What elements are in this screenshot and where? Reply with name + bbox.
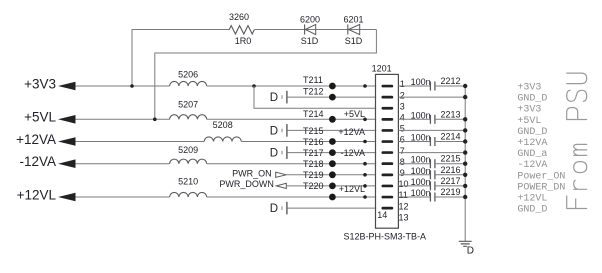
svg-text:-12VA: -12VA xyxy=(517,160,547,171)
ground symbol D xyxy=(459,241,472,246)
bus junction pin 10 xyxy=(463,184,467,188)
net label +5VL xyxy=(24,110,56,125)
svg-text:T215: T215 xyxy=(303,126,324,136)
label T214 xyxy=(303,109,324,119)
svg-text:+12VL: +12VL xyxy=(17,187,57,202)
pin 2 name GND_D xyxy=(517,94,547,105)
net label +12VA xyxy=(16,132,56,147)
wire ground-D to pin 2 xyxy=(288,96,377,98)
connector 1201 body xyxy=(376,74,399,228)
pin number 5 xyxy=(400,124,405,134)
svg-text:100n: 100n xyxy=(411,188,431,198)
capacitor 2213 100n xyxy=(430,115,435,124)
arrow +12VL xyxy=(58,193,76,202)
wire ground-D to pin 7 xyxy=(288,152,377,154)
ground bus xyxy=(464,86,466,241)
connector part number xyxy=(344,232,427,242)
test point T217 xyxy=(329,160,336,167)
wire pin 6 to cap 2214 xyxy=(398,141,430,143)
svg-text:5208: 5208 xyxy=(213,120,233,130)
svg-text:+5VL: +5VL xyxy=(24,110,56,125)
svg-text:100n: 100n xyxy=(411,77,431,87)
label 100n (2212) xyxy=(411,77,431,87)
capacitor 2215 100n xyxy=(430,159,435,168)
bus junction pin 1 xyxy=(463,84,467,88)
ground-D stub label (pin 2) xyxy=(270,92,278,104)
wire cap 2216 to bus xyxy=(435,174,465,176)
inductor 5206 xyxy=(170,81,207,86)
ground-D stub label (pin 5) xyxy=(270,126,278,138)
wire pin 8 to cap 2215 xyxy=(398,163,430,165)
pin number 10 xyxy=(399,179,409,189)
svg-text:5210: 5210 xyxy=(178,176,198,186)
inductor 5209 xyxy=(170,159,207,164)
svg-text:3: 3 xyxy=(400,101,405,111)
connector pin bar 10 xyxy=(382,185,394,188)
test point T214 xyxy=(329,116,336,123)
svg-text:2217: 2217 xyxy=(441,176,461,186)
svg-text:PWR_ON: PWR_ON xyxy=(232,169,272,179)
connector pin bar 8 xyxy=(382,162,394,165)
svg-text:2212: 2212 xyxy=(441,76,461,86)
svg-text:3260: 3260 xyxy=(229,12,249,22)
label 6201 xyxy=(343,15,363,25)
pin 10 name POWER_DN xyxy=(517,182,565,193)
svg-text:5209: 5209 xyxy=(178,145,198,155)
pin 1 name +3V3 xyxy=(517,83,541,94)
label 2216 xyxy=(441,165,461,175)
label T215 xyxy=(303,126,324,136)
capacitor 2217 100n xyxy=(430,181,435,190)
ground-D stub symbol (pin 2) xyxy=(282,91,287,104)
svg-text:2213: 2213 xyxy=(441,109,461,119)
svg-text:11: 11 xyxy=(399,190,408,200)
svg-text:2216: 2216 xyxy=(441,165,461,175)
wire cap 2215 to bus xyxy=(435,163,465,165)
wire +5VL to connector xyxy=(207,118,377,120)
svg-text:D: D xyxy=(270,148,278,160)
svg-text:5: 5 xyxy=(400,124,405,134)
wire pin 9 to cap 2216 xyxy=(398,174,430,176)
svg-text:+12VA: +12VA xyxy=(338,127,365,137)
ground-D stub label (pin 12) xyxy=(270,203,278,215)
wire ground-D to pin 12 xyxy=(288,207,377,209)
test point T216 xyxy=(329,149,336,156)
svg-text:GND_D: GND_D xyxy=(517,205,547,216)
net dot pin 1 xyxy=(363,84,367,88)
connector pin bar 9 xyxy=(382,174,394,177)
svg-text:2: 2 xyxy=(400,90,405,100)
wire diode 6201 down to +5VL feed xyxy=(155,30,377,120)
svg-text:100n: 100n xyxy=(411,155,431,165)
label 100n (2213) xyxy=(411,110,431,120)
diode 6200 S1D xyxy=(305,24,316,34)
arrow +3V3 xyxy=(58,82,76,91)
pin number 9 xyxy=(400,168,405,178)
svg-text:+12VA: +12VA xyxy=(16,132,56,147)
arrow +5VL xyxy=(58,115,76,124)
svg-text:T219: T219 xyxy=(303,170,324,180)
label T217 xyxy=(303,148,324,158)
svg-text:12: 12 xyxy=(399,201,409,211)
wire +12VL rail xyxy=(76,196,170,198)
junction +5VL/feed xyxy=(153,118,157,122)
pin number 4 xyxy=(400,113,405,123)
svg-text:+3V3: +3V3 xyxy=(517,105,541,116)
svg-text:-12VA: -12VA xyxy=(19,154,56,169)
net label +12VA at connector xyxy=(338,127,365,137)
svg-text:+3V3: +3V3 xyxy=(517,83,541,94)
svg-text:100n: 100n xyxy=(411,110,431,120)
svg-text:S1D: S1D xyxy=(345,36,363,46)
wire -12VA rail xyxy=(76,163,170,165)
wire pin 10 to cap 2217 xyxy=(398,185,430,187)
svg-text:1: 1 xyxy=(400,79,405,89)
svg-text:2214: 2214 xyxy=(441,132,461,142)
pin 8 name -12VA xyxy=(517,160,547,171)
wire pin 2 to ground bus xyxy=(398,96,465,98)
pin 5 name GND_D xyxy=(517,127,547,138)
svg-text:T220: T220 xyxy=(303,181,324,191)
capacitor 2216 100n xyxy=(430,170,435,179)
pin 12 name GND_D xyxy=(517,205,547,216)
label 3260 xyxy=(229,12,249,22)
svg-text:2219: 2219 xyxy=(441,187,461,197)
arrow PWR_ON xyxy=(276,172,287,177)
inductor 5210 xyxy=(170,192,207,197)
label T216 xyxy=(303,137,324,147)
bus junction pin 7 xyxy=(463,150,467,154)
label T211 xyxy=(303,75,323,85)
svg-text:100n: 100n xyxy=(411,166,431,176)
wire pin 1 to cap 2212 xyxy=(398,85,430,87)
label T218 xyxy=(303,159,324,169)
connector 1201 label xyxy=(372,64,392,74)
label 5208 xyxy=(213,120,233,130)
ground-D stub symbol (pin 5) xyxy=(282,124,287,137)
svg-text:2215: 2215 xyxy=(441,154,461,164)
label T219 xyxy=(303,170,324,180)
svg-text:100n: 100n xyxy=(411,177,431,187)
label 5207 xyxy=(178,100,198,110)
svg-text:+12VL: +12VL xyxy=(517,194,547,205)
label 1R0 xyxy=(235,36,252,46)
label 5206 xyxy=(178,70,198,80)
wire cap 2214 to bus xyxy=(435,141,465,143)
svg-text:Power_ON: Power_ON xyxy=(517,171,565,182)
net label -12VA xyxy=(19,154,56,169)
svg-text:5206: 5206 xyxy=(178,70,198,80)
pin 9 name Power_ON xyxy=(517,171,565,182)
label 2217 xyxy=(441,176,461,186)
net label +5VL at connector xyxy=(344,109,365,119)
label 2219 xyxy=(441,187,461,197)
pin 6 name +12VA xyxy=(517,138,547,149)
connector pin bar 4 xyxy=(382,118,394,121)
pin number 3 xyxy=(400,101,405,111)
svg-text:8: 8 xyxy=(400,157,405,167)
svg-text:POWER_DN: POWER_DN xyxy=(517,182,565,193)
net dot pin 8 xyxy=(363,162,367,166)
label PWR_ON xyxy=(232,169,272,179)
ground-D stub symbol (pin 7) xyxy=(282,146,287,159)
net dot pin 10 xyxy=(363,184,367,188)
junction +3V3/riser xyxy=(130,84,134,88)
svg-text:10: 10 xyxy=(399,179,409,189)
bus junction pin 5 xyxy=(463,128,467,132)
ground-D stub label (pin 7) xyxy=(270,148,278,160)
wire +12VL to connector xyxy=(207,196,377,198)
svg-text:D: D xyxy=(467,246,474,257)
net dot pin 9 xyxy=(363,173,367,177)
wire pin 11 to cap 2219 xyxy=(398,196,430,198)
label 100n (2219) xyxy=(411,188,431,198)
svg-text:D: D xyxy=(270,126,278,138)
net dot pin 11 xyxy=(363,195,367,199)
test point T219 xyxy=(329,183,336,190)
svg-text:T211: T211 xyxy=(303,75,323,85)
label S1D (6200) xyxy=(301,36,319,46)
svg-text:D: D xyxy=(270,203,278,215)
svg-text:-12VA: -12VA xyxy=(341,148,365,158)
label 100n (2214) xyxy=(411,133,431,143)
resistor R3260 (1R0) xyxy=(229,26,254,34)
label 2213 xyxy=(441,109,461,119)
test point T215 xyxy=(329,138,336,145)
connector pin bar 6 xyxy=(382,140,394,143)
arrow -12VA xyxy=(58,159,76,168)
pin 11 name +12VL xyxy=(517,194,547,205)
pin number 2 xyxy=(400,90,405,100)
test point T220 xyxy=(329,194,336,201)
svg-text:D: D xyxy=(270,92,278,104)
bus junction pin 2 xyxy=(463,95,467,99)
wire pin 4 to cap 2213 xyxy=(398,118,430,120)
pin number 1 xyxy=(400,79,405,89)
pin 7 name GND_a xyxy=(517,149,547,160)
svg-text:5207: 5207 xyxy=(178,100,198,110)
pin number 8 xyxy=(400,157,405,167)
label 2212 xyxy=(441,76,461,86)
ground-D stub symbol (pin 12) xyxy=(282,202,287,215)
connector pin bar 5 xyxy=(382,129,394,132)
wire PWR_ON to pin 9 xyxy=(286,174,375,176)
connector pin bar 1 xyxy=(382,85,394,88)
inductor 5207 xyxy=(170,115,207,120)
wire PWR_DOWN to pin 10 xyxy=(286,185,375,187)
test point T218 xyxy=(329,171,336,178)
net dot pin 6 xyxy=(363,140,367,144)
wire +5VL rail xyxy=(76,118,170,120)
wire cap 2219 to bus xyxy=(435,196,465,198)
pin number 11 xyxy=(399,190,408,200)
label 2214 xyxy=(441,132,461,142)
svg-text:T218: T218 xyxy=(303,159,324,169)
pin number 7 xyxy=(400,146,405,156)
net label -12VA at connector xyxy=(341,148,365,158)
svg-text:1R0: 1R0 xyxy=(235,36,252,46)
svg-text:T214: T214 xyxy=(303,109,324,119)
svg-text:100n: 100n xyxy=(411,133,431,143)
svg-text:6200: 6200 xyxy=(300,15,320,25)
svg-text:S12B-PH-SM3-TB-A: S12B-PH-SM3-TB-A xyxy=(344,232,427,242)
svg-text:4: 4 xyxy=(400,113,405,123)
net label +12VL at connector xyxy=(339,184,365,194)
label 100n (2216) xyxy=(411,166,431,176)
connector pin bar 11 xyxy=(382,196,394,199)
wire +3V3 rail xyxy=(76,85,170,87)
label 6200 xyxy=(300,15,320,25)
svg-text:13: 13 xyxy=(399,212,409,222)
svg-text:T217: T217 xyxy=(303,148,324,158)
label S1D (6201) xyxy=(345,36,363,46)
svg-text:T216: T216 xyxy=(303,137,324,147)
pin number 6 xyxy=(400,135,405,145)
pin 3 name +3V3 xyxy=(517,105,541,116)
wire +12VA to connector xyxy=(241,141,376,143)
pin 4 name +5VL xyxy=(517,116,541,127)
label 5210 xyxy=(178,176,198,186)
net label +12VL xyxy=(17,187,57,202)
wire +3V3 riser to resistor xyxy=(132,30,229,87)
pin number 14 xyxy=(377,210,387,220)
net dot pin 4 xyxy=(363,118,367,122)
svg-text:6201: 6201 xyxy=(343,15,363,25)
svg-text:+12VL: +12VL xyxy=(339,184,365,194)
svg-text:GND_D: GND_D xyxy=(517,94,547,105)
test point T212 xyxy=(329,94,336,101)
wire -12VA to connector xyxy=(207,163,377,165)
label 5209 xyxy=(178,145,198,155)
title From PSU xyxy=(567,73,587,208)
label 100n (2217) xyxy=(411,177,431,187)
svg-text:+12VA: +12VA xyxy=(517,138,547,149)
connector pin bar 12 xyxy=(382,207,394,210)
svg-text:9: 9 xyxy=(400,168,405,178)
svg-text:6: 6 xyxy=(400,135,405,145)
label 100n (2215) xyxy=(411,155,431,165)
svg-text:S1D: S1D xyxy=(301,36,319,46)
bus junction pin 9 xyxy=(463,173,467,177)
label T212 xyxy=(303,87,324,97)
connector pin bar 7 xyxy=(382,151,394,154)
wire cap 2213 to bus xyxy=(435,118,465,120)
capacitor 2219 100n xyxy=(430,193,435,202)
test point T211 xyxy=(329,83,336,90)
wire +3V3 branch to pin 3 xyxy=(254,86,376,108)
inductor 5208 xyxy=(204,137,241,142)
wire pin 7 to ground bus xyxy=(398,152,465,154)
capacitor 2214 100n xyxy=(430,137,435,146)
connector pin bar 2 xyxy=(382,96,394,99)
svg-text:1201: 1201 xyxy=(372,64,392,74)
diode 6201 S1D xyxy=(348,24,360,34)
svg-text:T212: T212 xyxy=(303,87,324,97)
wire cap 2212 to bus xyxy=(435,85,465,87)
pin number 13 xyxy=(399,212,409,222)
wire +3V3 to connector xyxy=(207,85,377,87)
bus junction pin 4 xyxy=(463,117,467,121)
net label +3V3 xyxy=(24,76,56,91)
arrow PWR_DOWN xyxy=(276,183,286,188)
wire resistor to diodes xyxy=(254,29,376,31)
svg-text:+3V3: +3V3 xyxy=(24,76,56,91)
label 2215 xyxy=(441,154,461,164)
wire cap 2217 to bus xyxy=(435,185,465,187)
connector pin bar 3 xyxy=(382,107,394,110)
svg-text:14: 14 xyxy=(377,210,387,220)
arrow +12VA xyxy=(58,137,76,146)
wire ground-D to pin 5 xyxy=(288,129,377,131)
bus junction pin 6 xyxy=(463,139,467,143)
svg-text:+5VL: +5VL xyxy=(517,116,541,127)
bus junction pin 11 xyxy=(463,195,467,199)
svg-text:GND_D: GND_D xyxy=(517,127,547,138)
svg-text:GND_a: GND_a xyxy=(517,149,547,160)
capacitor 2212 100n xyxy=(430,82,435,91)
bus junction pin 8 xyxy=(463,162,467,166)
pin number 12 xyxy=(399,201,409,211)
wire +12VA rail xyxy=(76,141,205,143)
label PWR_DOWN xyxy=(219,179,274,189)
svg-text:+5VL: +5VL xyxy=(344,109,365,119)
svg-text:PWR_DOWN: PWR_DOWN xyxy=(219,179,274,189)
ground label D xyxy=(467,246,474,257)
svg-text:7: 7 xyxy=(400,146,405,156)
label T220 xyxy=(303,181,324,191)
wire pin 5 to ground bus xyxy=(398,129,465,131)
junction +3V3 branch xyxy=(252,84,256,88)
